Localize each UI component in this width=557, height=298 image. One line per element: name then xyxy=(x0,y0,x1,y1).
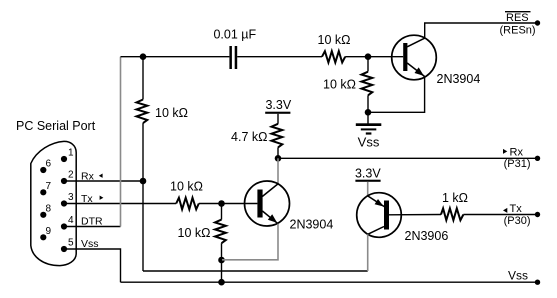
svg-text:4: 4 xyxy=(68,215,74,226)
node Q1 base / R3 junction xyxy=(365,53,372,60)
wire DTR vertical up to top rail xyxy=(120,57,122,227)
wire Q1 collector to RES terminal xyxy=(425,23,538,38)
ground symbol Vss xyxy=(367,112,369,123)
wire DTR pin4 xyxy=(64,226,121,228)
wire cap to R1 xyxy=(237,56,322,58)
wire Q2 emitter (gray) xyxy=(222,224,278,260)
capacitor C1 0.01uF plates xyxy=(229,46,232,69)
svg-text:1: 1 xyxy=(68,148,74,159)
svg-text:(P31): (P31) xyxy=(504,158,531,170)
wire Rx(P31) to terminal xyxy=(278,157,538,159)
wire Q1 emitter to ground node xyxy=(368,76,425,112)
wire Rx pin2 to node xyxy=(64,180,143,182)
transistor Q3 2N3906 xyxy=(357,193,402,238)
wire R1 to Q1 base xyxy=(345,56,403,58)
label Rx with right arrow xyxy=(503,149,507,154)
svg-text:2: 2 xyxy=(68,170,74,181)
svg-text:9: 9 xyxy=(46,226,52,237)
svg-text:8: 8 xyxy=(46,203,52,214)
wire PC-Rx bottom rail to Q3 collector xyxy=(143,270,368,272)
resistor R7 1k horizontal xyxy=(441,208,463,220)
svg-text:2N3904: 2N3904 xyxy=(290,217,334,231)
wire Q3 base to R7 xyxy=(389,214,441,216)
node Q2 emitter / R6 junction xyxy=(218,257,225,264)
node R4 / Q2 collector / Rx(P31) junction xyxy=(275,155,282,162)
svg-text:10 kΩ: 10 kΩ xyxy=(155,106,188,120)
transistor Q1 2N3904 xyxy=(392,35,437,80)
terminal Rx (P31) xyxy=(535,156,540,161)
svg-text:6: 6 xyxy=(46,159,52,170)
resistor R1 10k horizontal xyxy=(322,51,345,62)
terminal RES xyxy=(535,20,540,25)
transistor Q2 2N3904 xyxy=(245,181,290,226)
wire Vss bottom rail xyxy=(121,281,538,283)
svg-text:3: 3 xyxy=(68,192,74,203)
label Tx with left arrow xyxy=(503,208,507,213)
svg-text:DTR: DTR xyxy=(81,215,103,227)
resistor R3 10k vertical (Q1 base pulldown) xyxy=(367,57,369,72)
svg-text:10 kΩ: 10 kΩ xyxy=(318,33,351,47)
pin 5 xyxy=(61,246,67,252)
svg-text:2N3904: 2N3904 xyxy=(437,72,481,86)
node Vss rail junction xyxy=(218,279,225,286)
svg-text:5: 5 xyxy=(68,238,74,249)
wire Q3 collector to PC-Rx rail (gray) xyxy=(367,234,369,271)
connector J1 PC Serial Port DB9 outline xyxy=(31,141,76,265)
resistor R5 10k horizontal (Tx series) xyxy=(176,198,199,210)
node Q1 emitter / R3 / ground junction xyxy=(365,109,372,116)
svg-text:Tx: Tx xyxy=(510,203,523,215)
svg-text:Vss: Vss xyxy=(358,135,380,150)
svg-text:1 kΩ: 1 kΩ xyxy=(442,191,468,205)
wire Vss pin5 down to ground rail xyxy=(64,249,121,282)
pin 2 xyxy=(61,178,67,184)
wire top rail left segment xyxy=(121,56,230,58)
terminal Vss right xyxy=(535,280,540,285)
pin 9 xyxy=(40,234,46,240)
svg-text:0.01 µF: 0.01 µF xyxy=(213,27,256,41)
wire Tx pin3 to resistor xyxy=(64,203,176,205)
svg-text:RES: RES xyxy=(506,12,529,24)
node top rail / R2 junction xyxy=(140,53,147,60)
wire R5 to Q2 base xyxy=(199,203,258,205)
svg-text:10 kΩ: 10 kΩ xyxy=(178,226,211,240)
pin 1 xyxy=(61,156,67,162)
pin 7 xyxy=(40,189,46,195)
svg-text:(RESn): (RESn) xyxy=(500,24,536,36)
svg-text:(P30): (P30) xyxy=(504,215,531,227)
resistor R6 10k vertical (Q2 base pulldown) xyxy=(221,204,223,220)
wire 3.3V to Q3 emitter (gray) xyxy=(367,182,369,196)
svg-text:Rx: Rx xyxy=(510,147,524,159)
svg-text:Vss: Vss xyxy=(508,269,528,283)
wire Q2 collector (gray) xyxy=(277,158,279,184)
svg-text:10 kΩ: 10 kΩ xyxy=(323,77,356,91)
pin 3 xyxy=(61,200,67,206)
node Q2 base / R6 junction xyxy=(218,200,225,207)
pin 4 xyxy=(61,223,67,229)
terminal Tx (P30) xyxy=(535,212,540,217)
svg-text:Vss: Vss xyxy=(81,238,99,250)
wire R7 to Tx terminal xyxy=(463,214,537,216)
resistor R2 10k vertical (DTR node to PC-Rx node) xyxy=(142,57,144,100)
wire PC-Rx node down xyxy=(142,181,144,271)
resistor R4 4.7k vertical xyxy=(272,124,283,148)
node Rx pin2 / R2 junction xyxy=(140,178,147,185)
svg-text:10 kΩ: 10 kΩ xyxy=(170,180,203,194)
svg-text:PC Serial Port: PC Serial Port xyxy=(16,119,96,133)
pin 8 xyxy=(40,212,46,218)
svg-text:4.7 kΩ: 4.7 kΩ xyxy=(231,130,267,144)
svg-text:7: 7 xyxy=(46,181,52,192)
svg-text:2N3906: 2N3906 xyxy=(405,229,449,243)
svg-text:3.3V: 3.3V xyxy=(265,98,291,112)
pin 6 xyxy=(40,167,46,173)
svg-text:3.3V: 3.3V xyxy=(355,166,381,180)
